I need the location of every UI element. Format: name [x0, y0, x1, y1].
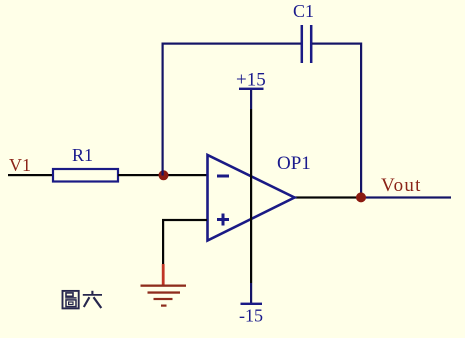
figure caption glyph 圖	[63, 291, 79, 309]
wire non-inverting input vertical down	[162, 220, 164, 264]
svg-text:V1: V1	[9, 155, 31, 175]
wire +15 stub	[250, 90, 252, 109]
power -15 bar symbol	[241, 303, 263, 305]
svg-text:R1: R1	[72, 145, 93, 165]
power +15 bar symbol	[239, 88, 264, 90]
svg-text:OP1: OP1	[277, 153, 311, 174]
wire C1 to right corner	[312, 43, 362, 45]
wire op-amp output to junction	[294, 196, 361, 198]
node junction dot (inverting input)	[159, 170, 169, 180]
resistor R1	[53, 169, 118, 182]
svg-text:Vout: Vout	[381, 175, 422, 196]
op-amp inverting input minus sign	[217, 175, 229, 178]
svg-text:+15: +15	[236, 70, 266, 91]
wire -15 stub	[250, 283, 252, 303]
figure caption glyph 六	[83, 291, 102, 308]
wire V1 to R1	[8, 174, 53, 176]
ground stub wire (red)	[162, 264, 165, 286]
op-amp non-inverting input plus sign	[217, 214, 229, 226]
wire feedback vertical right	[360, 43, 362, 198]
ground symbol	[141, 285, 187, 307]
wire R1 to op-amp inverting input	[118, 174, 207, 176]
node output junction dot	[356, 192, 366, 202]
wire non-inverting input horizontal	[162, 219, 207, 221]
capacitor C1	[302, 25, 311, 63]
svg-text:-15: -15	[239, 306, 263, 326]
wire feedback vertical left	[162, 43, 164, 176]
wire feedback top horizontal to C1	[162, 43, 302, 45]
wire junction to Vout	[361, 196, 451, 198]
wire power vertical through op-amp	[250, 109, 252, 283]
svg-text:C1: C1	[293, 1, 314, 21]
op-amp U1 triangle	[208, 155, 295, 241]
